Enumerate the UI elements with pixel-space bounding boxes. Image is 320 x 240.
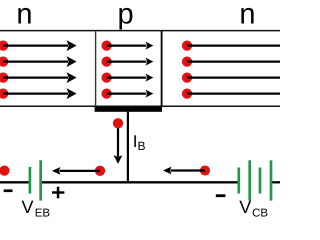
battery VCB cell2 negative plate [259, 168, 262, 194]
svg-text:n: n [16, 0, 32, 31]
junction line base-collector [161, 31, 163, 107]
electron arrow row3 emitter [3, 72, 76, 83]
electron arrow row3 base [107, 74, 154, 82]
electron arrow row1 emitter [3, 40, 76, 51]
electron dot row2 emitter [0, 56, 8, 66]
electron dot row4 base [101, 88, 111, 98]
bottom wire left segment [0, 181, 29, 183]
plus sign VEB [52, 187, 64, 199]
minus sign VCB [216, 194, 226, 197]
battery VCB cell1 negative plate [237, 168, 240, 194]
base contact bar [95, 107, 162, 112]
electron dot row1 base [101, 40, 111, 50]
electron arrow row2 emitter [3, 56, 76, 67]
electron dot row1 emitter [0, 40, 8, 50]
electron path row3 collector [187, 76, 280, 78]
electron dot row4 emitter [0, 88, 8, 98]
electron dot row4 collector [182, 88, 192, 98]
electron dot row2 collector [182, 56, 192, 66]
bottom wire middle segment [42, 181, 238, 183]
electron dot at left wire end [0, 165, 10, 175]
battery VCB cell2 positive plate [270, 160, 273, 200]
electron path row2 collector [187, 60, 280, 62]
electron arrow on collector loop wire [163, 167, 205, 175]
electron path row1 collector [187, 44, 280, 46]
electron dot on emitter loop wire [95, 166, 105, 176]
minus sign VEB [4, 189, 13, 192]
base lead wire [127, 112, 129, 183]
transistor body top border [0, 30, 280, 32]
transistor body bottom border [0, 105, 280, 107]
svg-text:p: p [118, 0, 134, 31]
electron arrow row4 emitter [3, 88, 76, 99]
base current electron dot [113, 118, 123, 128]
svg-text:n: n [239, 0, 255, 31]
junction line emitter-base [95, 31, 97, 107]
base current electron arrow [114, 128, 123, 164]
electron dot row3 emitter [0, 72, 8, 82]
battery VEB negative plate [29, 167, 32, 194]
electron dot on collector loop wire [200, 165, 210, 175]
battery VCB cell1 positive plate [248, 160, 251, 200]
electron dot row1 collector [182, 40, 192, 50]
electron dot row2 base [101, 56, 111, 66]
battery VEB positive plate [39, 160, 42, 200]
bottom wire right segment [272, 181, 280, 183]
electron arrow row1 base [107, 42, 154, 50]
electron arrow row2 base [107, 58, 154, 66]
electron arrow on emitter loop wire [52, 167, 100, 175]
electron arrow row4 base [107, 90, 154, 98]
electron dot row3 base [101, 72, 111, 82]
electron dot row3 collector [182, 72, 192, 82]
electron path row4 collector [187, 92, 280, 94]
